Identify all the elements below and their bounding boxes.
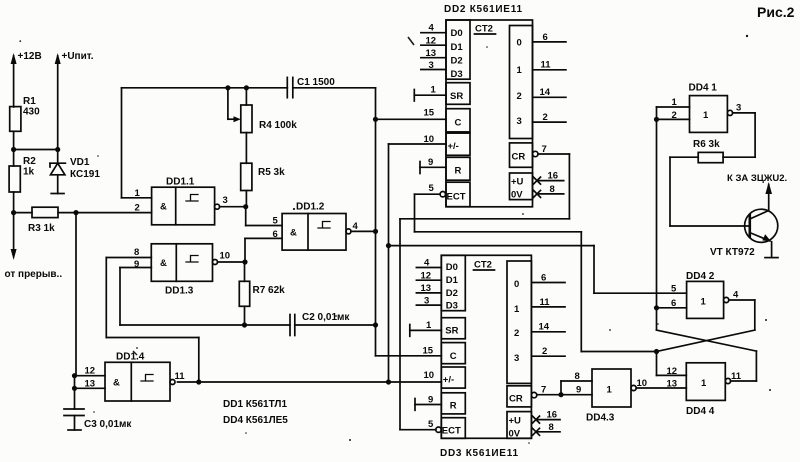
svg-text:2: 2 [543,112,548,123]
svg-text:2: 2 [517,91,522,102]
svg-text:15: 15 [423,346,434,357]
svg-text:SR: SR [445,326,458,337]
svg-text:КС191: КС191 [70,169,100,180]
wire DD4.1 input vertical to latch [656,107,658,308]
svg-text:1: 1 [431,85,437,96]
power +Upit arrow [55,53,61,150]
DD3 pin D1 (12) [416,271,441,282]
DD2 out 1 (11) [533,60,566,71]
svg-text:15: 15 [424,108,435,119]
svg-text:12: 12 [421,271,432,282]
DD2 out 2 (14) [533,87,566,98]
svg-text:9: 9 [428,395,433,406]
node dot net B bottom [386,379,391,384]
svg-text:+/-: +/- [443,375,454,386]
gate DD4.4 [667,363,742,417]
node dot DD1.1 out / R5 [243,204,248,209]
svg-text:4: 4 [353,221,359,232]
svg-text:R6 3k: R6 3k [693,139,720,150]
wire DD1.3 pin9 loop to C2 node [120,268,245,326]
svg-text:DD4 К561ЛЕ5: DD4 К561ЛЕ5 [223,415,288,426]
svg-text:DD3 К561ИЕ11: DD3 К561ИЕ11 [440,448,518,459]
svg-text:3: 3 [736,103,741,114]
svg-text:6: 6 [541,273,546,284]
resistor R3 [14,207,58,234]
svg-text:D3: D3 [451,69,463,80]
DD3 out 1 (11) [531,297,565,308]
wire DD4.1 inputs tied [657,107,690,119]
svg-text:R3 1k: R3 1k [28,223,55,234]
wire node to DD1.2 pin5 [246,207,282,226]
wire R1-VD1 cross link [14,149,58,151]
transistor VT KT972 [710,185,778,259]
svg-text:&: & [113,378,120,389]
svg-text:1: 1 [517,65,523,76]
svg-text:1: 1 [426,320,432,331]
node dot pin12 [72,373,77,378]
gate DD4.3 [575,369,648,424]
gate DD4.2 [671,271,739,318]
DD3 out 0 (6) [531,273,565,284]
DD2 ECT inversion circle [440,192,445,197]
top feedback wire [122,88,376,198]
arrow from interrupter [11,249,17,260]
DD3 pin D3 (3) [416,296,441,307]
svg-text:D3: D3 [446,301,458,312]
svg-text:11: 11 [731,371,742,382]
svg-text:6: 6 [543,32,548,43]
svg-text:D1: D1 [451,42,464,53]
resistor R5 3k [241,133,285,207]
svg-text:1: 1 [701,378,707,389]
DD3 out 3 (2) [531,346,565,357]
wire DD4.2 pin6 from latch node [657,307,687,309]
node dot R4 wiper on top wire [225,85,230,90]
svg-text:11: 11 [175,371,186,382]
DD3 pin R (9) [415,395,441,411]
wire branch down to DD1.4 inputs [75,213,77,376]
svg-text:CT2: CT2 [475,24,493,35]
svg-text:2: 2 [135,203,140,214]
svg-text:D2: D2 [446,288,458,299]
wire input rail down [13,213,15,250]
wire net A into DD3 C pin15 [376,355,442,357]
svg-text:0: 0 [517,38,522,49]
wire DD4.1 out to R6 [723,113,755,157]
svg-text:13: 13 [426,48,437,59]
svg-text:8: 8 [550,184,555,195]
wire DD1.2 out to net A [351,230,376,232]
svg-text:2: 2 [542,346,547,357]
svg-text:D0: D0 [451,28,463,39]
svg-text:10: 10 [424,370,435,381]
gate DD4.1 [672,83,742,133]
svg-text:R4 100k: R4 100k [259,120,297,131]
svg-text:0V: 0V [509,429,521,440]
resistor R4 100k (trimmer) [228,88,297,133]
svg-text:1: 1 [703,110,709,121]
DD2 out 0 (6) [533,32,566,43]
svg-text:+Uпит.: +Uпит. [62,51,94,62]
svg-text:1: 1 [514,304,520,315]
svg-text:DD1.2: DD1.2 [296,202,325,213]
svg-text:R2: R2 [23,156,36,167]
wire DD4.4 out to DD4.2 pin6 (cross) [657,308,757,381]
svg-text:430: 430 [23,107,40,118]
DD3 pin 0V (8) [533,422,561,435]
resistor R2 [9,150,36,213]
svg-text:D0: D0 [446,262,458,273]
svg-text:VT КТ972: VT КТ972 [710,247,755,258]
svg-text:&: & [160,202,167,213]
DD3 out 2 (14) [531,322,565,333]
svg-text:DD4.3: DD4.3 [586,413,615,424]
svg-text:16: 16 [547,410,558,421]
DD2 out 3 (2) [533,112,566,123]
svg-text:9: 9 [428,157,433,168]
svg-text:6: 6 [273,229,278,240]
svg-text:D2: D2 [451,56,463,67]
wire DD1.4 out to DD3 +/- pin10 [178,381,442,383]
svg-text:13: 13 [667,379,678,390]
output arrow K ZA [727,173,787,194]
svg-text:12: 12 [426,36,437,47]
svg-text:R: R [450,401,457,412]
svg-text:1k: 1k [23,167,35,178]
svg-text:ECT: ECT [442,426,461,437]
svg-text:DD1 К561ТЛ1: DD1 К561ТЛ1 [223,399,287,410]
node dot left rail [11,147,16,152]
svg-text:CT2: CT2 [474,260,492,271]
gate DD1.2 [273,202,359,251]
svg-text:DD4 2: DD4 2 [686,271,715,282]
wire R3 to DD1.1 pin2 [58,212,152,214]
svg-text:11: 11 [540,297,551,308]
svg-text:8: 8 [134,247,139,258]
svg-text:14: 14 [539,322,550,333]
svg-text:К ЗА ЗЦЖU2.: К ЗА ЗЦЖU2. [727,173,787,184]
DD2 pin D0 (4) [421,23,446,34]
wire to DD2 C pin15 [376,118,447,120]
svg-text:10: 10 [220,251,231,262]
zener diode VD1 KC191 [50,150,100,194]
svg-text:C2 0,01мк: C2 0,01мк [302,312,350,323]
node dot latch node pin6 [654,305,659,310]
svg-text:R: R [455,166,462,177]
svg-text:DD1.1: DD1.1 [166,177,195,188]
svg-text:Рис.2: Рис.2 [757,4,795,20]
capacitor C3 0,01mk [64,409,132,430]
DD2 pin SR (1) [414,85,446,102]
node dot C2 left [242,322,247,327]
wire DD4.2 out to DD4.4 pin12 (cross) [657,300,755,375]
svg-text:8: 8 [575,371,580,382]
DD3 pin D0 (4) [416,258,441,269]
svg-text:ECT: ECT [447,192,466,203]
wire DD3 CR to DD4.3 pins 8,9 [537,381,592,395]
svg-text:3: 3 [517,116,522,127]
resistor R7 62k [239,262,285,325]
svg-text:R1: R1 [23,96,36,107]
svg-text:13: 13 [421,283,432,294]
DD3 pin SR (1) [410,320,442,336]
svg-text:3: 3 [514,353,519,364]
svg-text:0V: 0V [511,190,523,201]
resistor R1 [10,96,40,150]
DD3 ECT inversion circle [436,427,441,432]
svg-text:3: 3 [223,195,228,206]
svg-text:CR: CR [512,152,526,163]
resistor R6 3k [670,139,723,163]
gate DD1.1 [135,177,228,225]
svg-text:C: C [450,351,457,362]
DD2 pin R (9) [420,157,446,174]
svg-text:C: C [455,118,462,129]
node dot Upit rail [55,147,60,152]
wire DD1.1 output to node [220,206,246,208]
node dot DD1.4 out [196,379,201,384]
counter DD2 K561IE11 [446,20,533,207]
wire net B to DD2 +/- pin10 [389,143,447,145]
DD2 CR inversion circle [533,151,538,156]
wire DD1.4 pin13 [75,387,106,389]
node dot R4 top on top wire [244,85,249,90]
svg-text:R7 62k: R7 62k [253,285,286,296]
svg-text:1: 1 [135,188,141,199]
node dot net A / DD1.2 out [373,229,378,234]
svg-text:16: 16 [548,171,559,182]
DD2 pin D3 (3) [421,60,446,71]
node dot net A / C2 [373,322,378,327]
svg-text:1: 1 [607,385,613,396]
svg-text:+/-: +/- [448,141,459,152]
node dot latch enable tie [654,349,659,354]
svg-text:1: 1 [701,297,707,308]
capacitor C1 1500 [287,77,335,98]
node dot pin2 branch [73,210,78,215]
svg-text:C3 0,01мк: C3 0,01мк [84,419,132,430]
gate DD1.4 [85,352,186,402]
svg-text:CR: CR [509,394,523,405]
node dot DD4.3 input tie [558,392,563,397]
svg-text:DD1.3: DD1.3 [165,286,194,297]
node dot R3 left [11,210,16,215]
svg-text:5: 5 [273,216,279,227]
power +12V arrow [11,53,17,107]
DD2 pin 0V (8) [534,184,564,197]
DD3 pin D2 (13) [416,283,441,294]
svg-text:+12В: +12В [18,51,42,62]
svg-text:C1 1500: C1 1500 [297,77,335,88]
svg-text:8: 8 [549,422,554,433]
node dot net A / DD2 C [373,117,378,122]
svg-text:10: 10 [424,134,435,145]
DD3 pin +U (16) [533,410,561,424]
svg-text:5: 5 [428,419,434,430]
svg-text:5: 5 [671,284,677,295]
wire DD1.3 out to node [218,261,246,263]
svg-text:4: 4 [424,258,430,269]
svg-text:12: 12 [667,366,678,377]
DD2 pin D1 (12) [421,36,446,47]
node dot DD1.3 out [242,259,247,264]
gate DD1.3 [134,244,230,297]
wire DD1.3 pin8 loop from DD1.4 out [106,258,199,383]
svg-text:9: 9 [576,385,581,396]
counter DD3 K561IE11 [441,255,531,439]
wire DD4.3 out to DD4.4 pin13 [636,387,686,389]
svg-text:SR: SR [450,91,463,102]
svg-text:11: 11 [541,60,552,71]
svg-text:R5 3k: R5 3k [258,167,285,178]
svg-text:0: 0 [514,279,519,290]
DD2 pin +U (16) [534,171,564,185]
wire DD1.4 pin12 [75,375,106,377]
svg-text:4: 4 [733,290,739,301]
node dot net B mid [386,243,391,248]
svg-text:3: 3 [429,60,434,71]
DD2 pin D2 (13) [421,48,446,59]
capacitor C2 0,01mk [245,312,376,336]
svg-text:4: 4 [429,23,435,34]
svg-text:3: 3 [424,296,429,307]
svg-text:5: 5 [429,183,435,194]
svg-text:2: 2 [514,328,519,339]
svg-text:&: & [290,228,297,239]
svg-text:от прерыв..: от прерыв.. [5,269,63,280]
wire node up to DD1.2 pin6 [245,238,282,262]
wire DD2 ECT to latch output [415,194,657,351]
node dot DD4.1 pin2 [654,117,659,122]
DD3 CR inversion circle [531,392,536,397]
svg-text:&: & [160,258,167,269]
node dot pin13 [72,386,77,391]
wire net B to DD4.2 pin5 [389,246,687,294]
svg-text:VD1: VD1 [70,157,90,168]
svg-text:DD4 1: DD4 1 [689,83,718,94]
svg-text:+U: +U [511,177,524,188]
wire R6 to VT base [670,157,750,226]
svg-text:+U: +U [509,416,522,427]
svg-text:D1: D1 [446,275,459,286]
svg-text:DD1.4: DD1.4 [116,352,145,363]
net B vertical (up/down net) [388,144,390,382]
svg-text:DD2 К561ИЕ11: DD2 К561ИЕ11 [444,4,522,15]
wire DD2 CR to DD3 ECT [400,154,569,430]
svg-text:14: 14 [540,87,551,98]
net A vertical (C1 right / clock net) [375,88,377,356]
svg-text:DD4 4: DD4 4 [686,406,715,417]
